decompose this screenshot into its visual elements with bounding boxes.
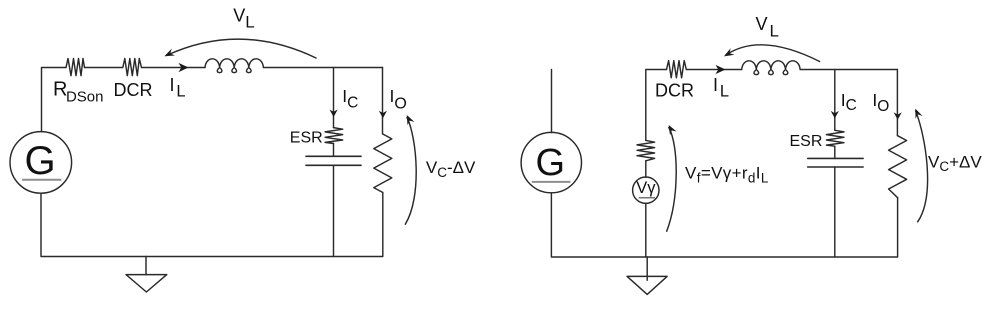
svg-text:Vγ: Vγ (636, 179, 656, 197)
svg-text:VC+ΔV: VC+ΔV (928, 152, 982, 174)
svg-text:ESR: ESR (790, 133, 823, 150)
svg-text:G: G (536, 142, 566, 184)
svg-text:IL: IL (713, 75, 729, 101)
svg-text:IL: IL (170, 75, 186, 101)
svg-text:IC: IC (841, 90, 857, 114)
svg-text:DCR: DCR (114, 80, 153, 100)
svg-text:VL: VL (756, 14, 779, 40)
svg-text:DCR: DCR (655, 81, 694, 101)
svg-text:G: G (24, 139, 55, 183)
svg-text:IC: IC (342, 86, 358, 112)
svg-text:ESR: ESR (290, 129, 323, 146)
svg-text:IO: IO (390, 86, 407, 113)
svg-text:Vf=Vγ+rdIL: Vf=Vγ+rdIL (685, 164, 769, 186)
svg-text:VC-ΔV: VC-ΔV (426, 158, 476, 180)
svg-text:RDSon: RDSon (53, 79, 103, 106)
svg-text:VL: VL (233, 5, 254, 31)
svg-text:IO: IO (872, 90, 889, 115)
